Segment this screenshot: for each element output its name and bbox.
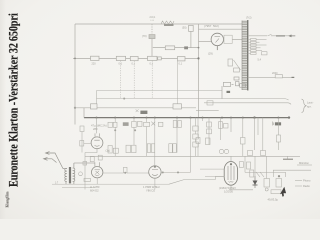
capacitor C4 on g2 rail [173,104,182,109]
wire diag anode [234,60,241,70]
resistor r-b [219,122,223,129]
wire solid d3 to C4 [177,61,179,104]
svg-text:0,1: 0,1 [119,62,123,65]
wire drop 134 [133,118,135,145]
wire tap2 [248,41,251,43]
svg-text:604 D2: 604 D2 [90,188,99,192]
resistor r-d [206,138,211,145]
resistor r-e [241,138,246,145]
bus main [84,117,289,119]
wire heater H3 [204,103,291,105]
diag marks [256,172,264,177]
wire drop 177 [176,118,178,153]
svg-text:Radio: Radio [303,184,310,188]
svg-text:0,1: 0,1 [132,62,136,65]
dark dash below cluster [227,91,231,93]
resistor r-h [261,151,266,156]
wire output line [248,35,267,37]
resistor tap2 [251,41,257,43]
wire drop 195.5 [195,118,197,157]
jack circle [79,172,83,176]
grid resistor V3 a [90,157,94,162]
resistor box B5 on rail2 [178,57,186,61]
svg-text:5,4: 5,4 [258,59,262,62]
wire drop 209 [198,118,209,157]
tube V3 [92,162,103,178]
T1 wires [63,163,95,184]
dark cap above bus [140,111,147,114]
resistor m6 pair [126,145,131,152]
T2 core dark line [247,20,249,91]
resistor r-a2 [207,129,212,134]
wire left vertical [74,24,76,125]
svg-text:Klangfilm: Klangfilm [5,191,9,208]
output arrow end [289,35,295,37]
wire tap1 [248,38,251,40]
capacitor c-b [224,124,229,129]
grid resistor V3 b [98,155,102,160]
resistor R4 [234,68,240,72]
wire V4 top [154,118,156,166]
bottom left rails [52,184,169,188]
resistor m12 [193,126,199,131]
cap c-f [219,149,223,153]
wire right lower [245,156,286,177]
dark dash under zigzag [164,24,174,26]
resistor r-a [207,122,212,127]
wire v85 [84,153,86,190]
wire V5 left stubs [200,169,224,176]
dark box m3 [123,122,129,126]
wire drop 146 [146,118,148,157]
capacitor C1 body [149,35,155,39]
node dot signal [124,172,126,174]
wire tap4b [256,47,260,49]
transformer T2 output winding ladder [242,21,247,91]
output dark segment [276,35,285,37]
capacitor C1 dashed drop [151,24,153,34]
wire v152 [151,39,153,59]
svg-text:2×0,1: 2×0,1 [150,16,157,19]
resistor box B4 on rail2 [148,56,158,60]
wire R2 down [190,31,192,47]
svg-text:(70): (70) [142,34,147,38]
pot box [271,190,281,194]
resistor box B2 on rail2 [116,56,125,60]
wire tap5b [256,50,262,52]
resistor r-j [264,175,282,193]
svg-text:(50): (50) [182,27,187,30]
svg-text:• • •: • • • [151,20,155,22]
resistor r-k [276,179,282,188]
wire drop 254 [255,118,267,179]
wire rail3 [153,47,199,49]
resistor tap4 [251,47,257,49]
resistor on x82 [80,126,84,132]
wire V2 top [96,118,98,134]
resistor m4 [132,121,137,127]
resistor on x82 b [80,141,84,147]
svg-text:(Tr2): (Tr2) [246,16,252,20]
resistor m5 [138,121,143,126]
resistor r-g [248,151,253,156]
wire tube1 anode [199,41,212,43]
input arrows [44,152,64,169]
cathode box V3 [84,178,91,181]
box near V2 right [113,148,118,153]
resistor R5 feedback [275,75,282,78]
V3 cathode [96,178,98,184]
wire drop 220 [220,118,222,140]
resistor r-c [196,138,200,144]
resistor r-v5c [240,162,244,168]
resistor m1a [108,122,113,127]
wire heater H4 [196,109,219,111]
node dots on bus [96,117,98,119]
resistor m7 [144,122,150,126]
rail cathode [85,155,300,157]
switch S1 [268,34,272,36]
wire fb line [248,76,292,78]
arrow cursor [280,187,286,197]
dark blob R2 bottom [184,46,188,49]
svg-text:280: 280 [93,127,98,131]
resistor m9 [158,122,163,126]
tube V1 [211,33,223,50]
svg-text:Euronette Klarton -Verstärker: Euronette Klarton -Verstärker 32 650pri [8,13,21,187]
wire left drop x82 [81,132,83,153]
svg-text:2000: 2000 [272,72,278,75]
wire drop 242 [242,118,244,157]
wire drop 278.5 [278,118,280,150]
wire tap6 [248,52,251,54]
resistor r-v5a [247,162,251,169]
wire top rail [75,23,242,25]
resistor m14 [193,142,199,147]
diode D1 [253,176,258,188]
resistor box B4b on rail2 [158,57,162,60]
svg-text:Mikrofon: Mikrofon [299,161,310,165]
wire dashed d1 [133,61,135,99]
T1 right coil [73,168,75,181]
wire heater vconn [96,91,98,104]
svg-text:(29): (29) [208,52,213,56]
svg-text:0,1: 0,1 [179,62,183,65]
svg-text:(1µ): (1µ) [106,149,111,153]
wire V4 bottom [154,178,156,189]
svg-text:(7957 502): (7957 502) [204,24,219,28]
wire tap2b [256,41,259,43]
resistor tap5c [262,52,268,55]
wire heater H1 [97,90,223,92]
wire dashed d2 [151,61,153,99]
wire rail2 [73,57,199,59]
wire tap1b [256,38,266,40]
wire v198 [198,24,200,118]
node rail2 dot [74,58,76,60]
wire tap3b [256,44,266,46]
resistor m13 [193,134,199,139]
dark cap below bus right [275,122,281,125]
resistor tap6 [251,53,257,55]
svg-text:Y86 D2: Y86 D2 [146,188,155,192]
wire rail g2 [75,107,196,109]
capacitor C2 below tube1 [228,59,233,66]
fb dark dash [292,76,295,78]
dark stub right edge [283,158,293,160]
x marks m8 [151,122,155,126]
resistor box B3 on rail2 [130,57,138,61]
resistor tap1 [251,39,257,41]
svg-text:spr.: spr. [307,105,312,109]
resistor tap5 [251,50,257,52]
speaker bracket [302,99,307,113]
resistor R2 vertical [189,25,194,31]
tube V4 [149,166,161,178]
grid box right of V1 [224,35,232,43]
wire drop 110 [114,118,116,157]
wire tap5 [248,50,251,52]
wire V2 bottom [85,149,97,153]
resistor r-v5b [250,170,254,177]
resistor R3 [165,46,174,50]
capacitor m15 pair [147,144,150,153]
box right of T1 [83,162,87,166]
coupling box [124,167,128,173]
wire tube1 top line [199,28,243,30]
power tube V5 [224,162,237,186]
transformer T1 input [63,163,95,184]
resistor m1b [113,122,117,127]
capacitor m11 pair [169,144,173,153]
T1 core [69,167,70,183]
tube V2 [91,133,103,148]
wire tap4 [248,47,251,49]
resistor R-top zigzag [161,21,174,24]
wire heater H2 [97,99,289,100]
T1 left coil [65,169,67,182]
right edge labels [273,156,312,186]
wire signal line [84,143,191,173]
bus left stub [83,108,85,118]
wire V5 top [230,118,232,162]
svg-text:49,83,5µ: 49,83,5µ [268,197,279,201]
wire bottom rail [169,177,253,190]
wire tap3 [248,44,251,46]
svg-text:220: 220 [92,62,97,65]
svg-text:Phono: Phono [303,179,311,183]
resistor tap3 [251,44,257,46]
heater cluster boxes [222,77,245,99]
wire dashed d0 [120,61,122,99]
box on H3 [207,101,213,105]
capacitor C3 on g2 rail [91,104,98,109]
wire drop 262 [262,118,264,151]
resistor box B1 on rail2 [91,56,100,60]
resistor m2 [108,146,112,154]
node rail3 dot [198,47,200,49]
wire drop 190 [190,118,192,173]
capacitor m10 pair [173,121,177,128]
svg-text:0,1: 0,1 [150,62,154,65]
resistor r-i [277,135,281,142]
wire tube1 to box [232,38,242,40]
